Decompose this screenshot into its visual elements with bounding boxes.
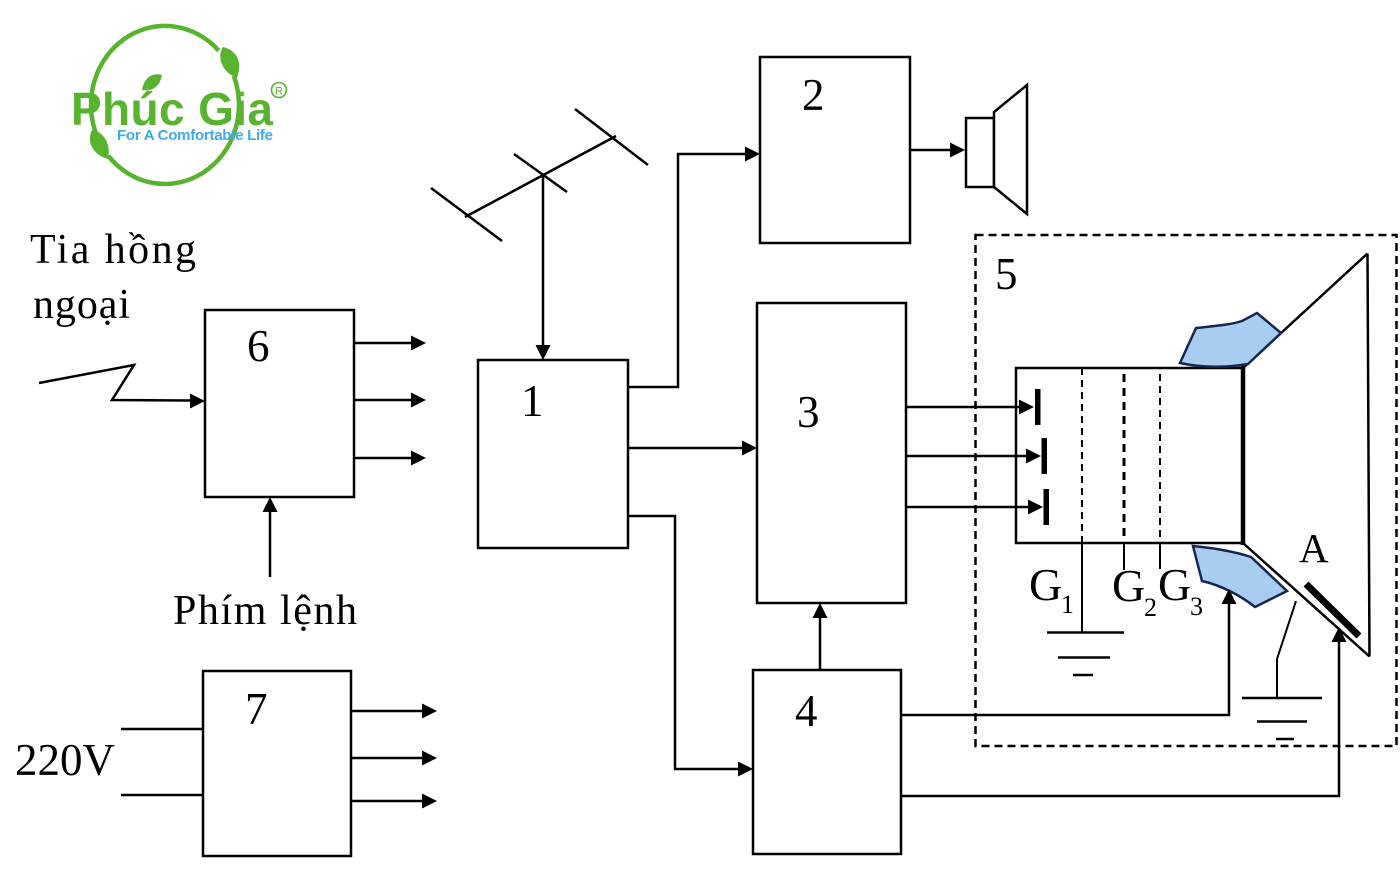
CRT screen edge: [1368, 254, 1370, 657]
block 7: [203, 671, 351, 856]
logo registered mark: [272, 83, 287, 98]
svg-text:3: 3: [797, 387, 820, 437]
svg-text:4: 4: [795, 686, 818, 736]
grid G2 lead: [1123, 543, 1125, 570]
grid G3 dashed line: [1159, 374, 1161, 543]
svg-text:1: 1: [1061, 590, 1074, 619]
deflection coil top: [1180, 313, 1281, 367]
cathode bar 1: [1035, 389, 1041, 425]
svg-text:G: G: [1112, 560, 1145, 611]
deflection coil bottom: [1193, 546, 1287, 607]
ground right: [1242, 697, 1322, 700]
anode bar: [1306, 584, 1359, 636]
arrowhead into block 6: [190, 394, 205, 409]
block 6 output wire 2: [354, 399, 411, 402]
block 7 input wire 2: [121, 794, 203, 797]
svg-text:3: 3: [1190, 592, 1203, 621]
antenna element bottom: [431, 188, 502, 241]
block 6: [205, 310, 354, 497]
grid G3 lead: [1159, 543, 1161, 569]
block 1: [478, 360, 628, 548]
antenna element top: [575, 109, 648, 165]
ground under G1: [1047, 631, 1124, 634]
cathode bar 2: [1042, 438, 1048, 474]
logo leaf bottom-left: [90, 130, 109, 159]
wire from Phim lenh up into block 6: [269, 512, 272, 577]
logo leaf small above u: [142, 74, 162, 90]
block 7 output wire 3: [351, 800, 422, 803]
wire block3 to cathode 2: [906, 455, 1026, 458]
svg-text:6: 6: [247, 321, 270, 371]
wire block2 to speaker: [910, 149, 950, 152]
aquadag switch line: [1277, 601, 1296, 698]
svg-text:R: R: [275, 86, 283, 98]
wire block3 to cathode 3: [906, 506, 1028, 509]
svg-text:2: 2: [802, 70, 825, 120]
CRT neck right edge thick: [1241, 366, 1246, 545]
antenna boom: [465, 136, 616, 217]
svg-text:220V: 220V: [15, 735, 115, 785]
grid G2 dashed line: [1123, 374, 1126, 543]
svg-text:7: 7: [245, 684, 268, 734]
wire block4 to anode: [901, 642, 1339, 796]
block 3: [757, 303, 906, 603]
CRT funnel bottom: [1243, 543, 1370, 657]
grid G1 dashed line: [1081, 368, 1083, 543]
wire block1 to block4: [628, 516, 738, 769]
wire block4 up to block3: [819, 618, 822, 670]
wire block4 to deflection coils: [901, 604, 1229, 715]
svg-text:Phím lệnh: Phím lệnh: [173, 588, 357, 634]
svg-text:1: 1: [521, 376, 544, 426]
svg-text:ngoại: ngoại: [33, 282, 130, 328]
logo leaf top-right: [220, 47, 239, 78]
antenna feeder wire: [542, 176, 545, 345]
block 7 output wire 2: [351, 757, 422, 760]
block 2: [760, 57, 910, 243]
infrared ray zigzag: [39, 365, 190, 401]
cathode bar 3: [1044, 489, 1050, 525]
dashed box 5: [976, 235, 1397, 746]
svg-text:5: 5: [995, 249, 1018, 299]
wire block1 to block2: [628, 154, 745, 387]
CRT neck: [1016, 368, 1243, 543]
svg-text:G: G: [1158, 559, 1191, 610]
svg-text:2: 2: [1144, 593, 1157, 622]
block 4: [753, 670, 901, 854]
block 6 output wire 1: [354, 342, 411, 345]
svg-text:G: G: [1029, 559, 1062, 610]
block 6 output wire 3: [354, 457, 411, 460]
block 7 output wire 1: [351, 710, 422, 713]
wire block3 to cathode 1: [906, 406, 1019, 409]
wire block1 to block3: [628, 447, 742, 450]
logo arc top-left: [91, 26, 219, 136]
CRT funnel top: [1243, 254, 1368, 369]
svg-text:For A Comfortable Life: For A Comfortable Life: [117, 127, 273, 144]
logo arc bottom-right: [108, 76, 239, 184]
speaker driver: [966, 118, 994, 187]
block 7 input wire 1: [121, 728, 203, 731]
antenna element middle: [514, 154, 567, 192]
grid G1 lead: [1081, 543, 1083, 632]
svg-text:A: A: [1299, 525, 1329, 571]
speaker cone: [994, 85, 1027, 214]
logo Phuc Gia: [71, 26, 287, 184]
